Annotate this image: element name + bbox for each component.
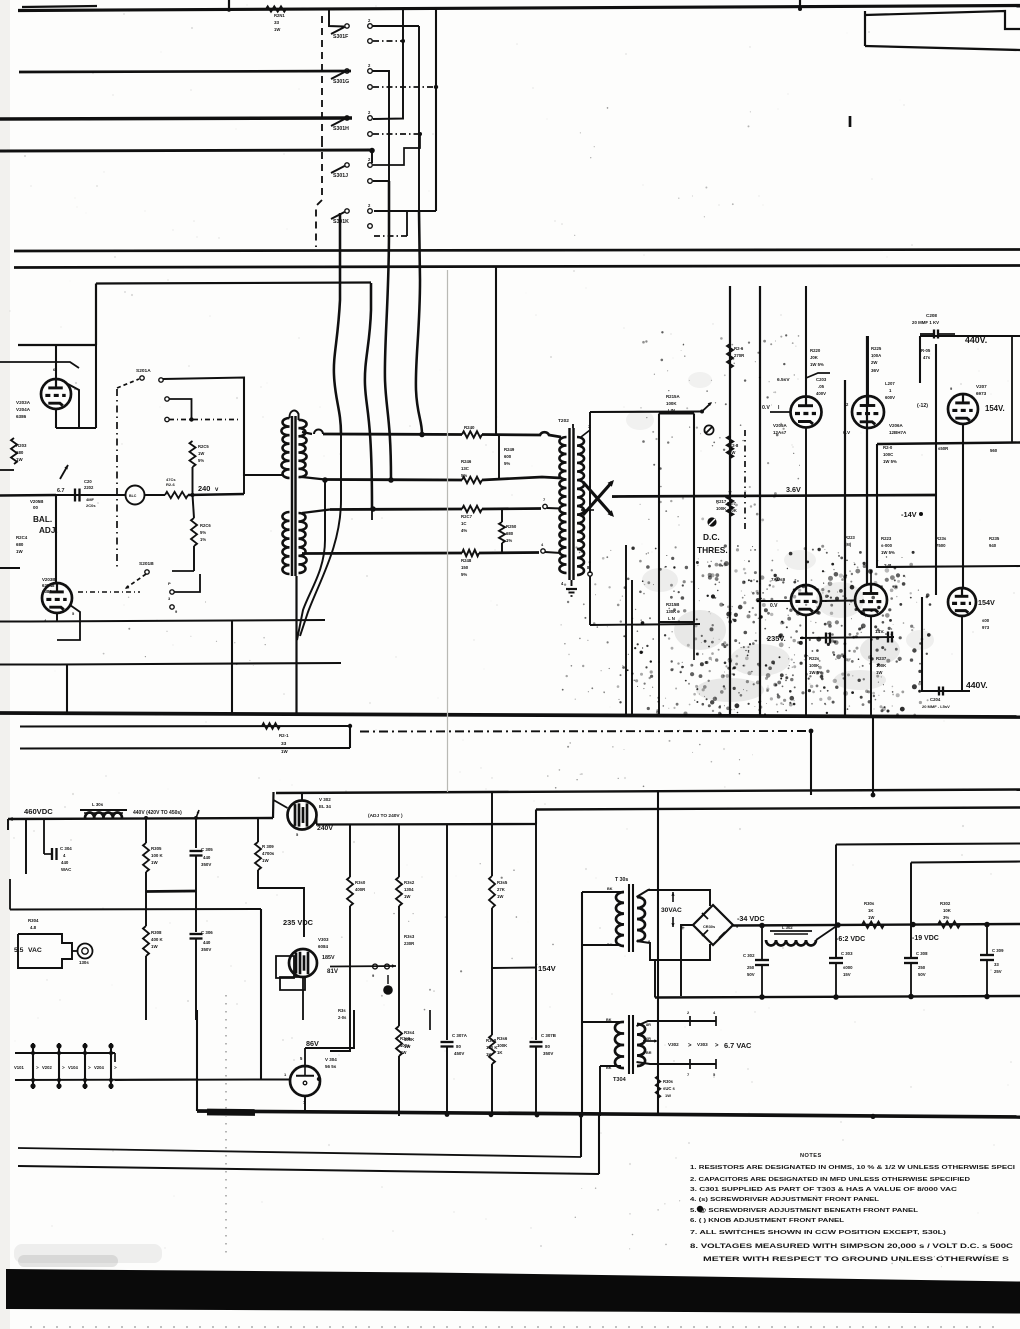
svg-text:7500: 7500 <box>936 543 946 548</box>
wire node y=495 through lamp <box>56 494 126 496</box>
svg-text:3.6V: 3.6V <box>786 485 801 494</box>
svg-text:S301F: S301F <box>333 34 348 40</box>
svg-text:NOTES: NOTES <box>800 1153 822 1159</box>
wire V304 right pin dot <box>317 1077 321 1081</box>
capacitor C208 top <box>933 330 935 339</box>
wire V205A grid stub <box>770 411 791 413</box>
wire T202 pin 8 drop <box>588 572 592 576</box>
wire node y=495 to T201 area <box>188 494 244 495</box>
transformer T304 core <box>628 1015 630 1074</box>
svg-text:C 307B: C 307B <box>541 1033 556 1038</box>
switch S301K contacts <box>368 209 373 214</box>
svg-text:S201B: S201B <box>139 561 154 567</box>
tube V205A <box>791 397 822 428</box>
svg-text:BK: BK <box>607 943 613 947</box>
svg-text:R30s: R30s <box>663 1079 674 1084</box>
wire bracket from bus to y=1151 line <box>580 1115 582 1157</box>
switch S201B contact <box>145 570 149 574</box>
transformer T303 secondary <box>637 897 645 941</box>
svg-text:1W: 1W <box>151 944 158 949</box>
svg-text:R250: R250 <box>506 524 517 529</box>
svg-text:BK: BK <box>606 1066 612 1070</box>
svg-text:C20: C20 <box>84 479 92 484</box>
svg-text:185V: 185V <box>322 955 335 961</box>
wire vertical x=436 from top bus to K row <box>435 7 437 211</box>
wire wavy drop 2 (from y=283 corner) <box>365 283 372 508</box>
svg-text:R240: R240 <box>464 425 475 430</box>
capacitor C202 <box>74 489 76 502</box>
capacitor C302 <box>755 959 769 961</box>
wire rail corner x=536 <box>535 810 537 825</box>
wire vertical x=536 <box>535 810 537 1041</box>
svg-text:R249: R249 <box>504 447 515 452</box>
wire T303 secondary bottom to bridge <box>637 941 711 960</box>
svg-text:1W 5%: 1W 5% <box>881 550 895 555</box>
inductor L304 <box>85 812 122 818</box>
svg-text:R2C4: R2C4 <box>16 535 28 540</box>
svg-text:5%: 5% <box>200 530 206 535</box>
wire rail y=818 left <box>8 818 273 819</box>
wire S301F arm feed from top bus <box>329 10 344 27</box>
svg-text:350V: 350V <box>201 947 211 952</box>
svg-text:>: > <box>36 1065 39 1070</box>
transformer T304 primary <box>615 1022 624 1068</box>
wire wavy drop 4 (from F-top vertical) <box>416 211 422 434</box>
wire dash-dot from cross to 3.6V bus <box>612 496 630 497</box>
inductor L302 <box>761 926 763 941</box>
wire V302 riser <box>272 792 275 818</box>
wire vertical x=67 to bus <box>66 665 68 715</box>
svg-text:1W: 1W <box>665 1093 671 1098</box>
svg-text:BR: BR <box>646 1051 652 1055</box>
wire R309 hang <box>257 818 259 842</box>
svg-text:4%: 4% <box>461 528 467 533</box>
scan artifact dotted vertical <box>225 995 227 1258</box>
resistor R309 <box>255 842 261 870</box>
svg-text:460VDC: 460VDC <box>24 807 53 816</box>
node line y=495 left <box>0 494 56 497</box>
svg-text:R215A: R215A <box>666 394 680 399</box>
svg-text:s000: s000 <box>843 965 853 970</box>
wire link y=891 <box>146 890 196 893</box>
svg-text:>: > <box>715 1043 719 1049</box>
svg-text:440: 440 <box>203 855 211 860</box>
svg-text:6. ( ) KNOB ADJUSTMENT FRONT P: 6. ( ) KNOB ADJUSTMENT FRONT PANEL <box>690 1218 845 1224</box>
svg-text:R203: R203 <box>16 443 27 448</box>
wire vertical x=96 y283-428 lower half <box>95 345 97 428</box>
wire left branch y=283 to wavy drop <box>96 283 371 284</box>
transformer T303 core <box>628 884 630 952</box>
svg-text:7. ALL SWITCHES SHOWN IN CCW P: 7. ALL SWITCHES SHOWN IN CCW POSITION EX… <box>690 1230 946 1236</box>
wire x=197 to bus <box>196 1080 198 1112</box>
svg-text:R2-1: R2-1 <box>279 733 289 738</box>
wire vertical from H-bottom to J-top <box>373 134 420 165</box>
wire horizontal y=428 <box>56 427 96 429</box>
wire box rail y=862 <box>911 862 1020 863</box>
wire drop x=325 to lower-left <box>297 480 325 640</box>
switch gang dash-dot vertical S201 <box>116 389 118 568</box>
svg-text:-34 VDC: -34 VDC <box>737 914 765 923</box>
scan speckle field <box>817 549 819 551</box>
wire y=909 branch <box>10 908 261 911</box>
wire top-right bracket lower <box>865 46 1020 50</box>
wire long vertical x=730 <box>729 286 731 715</box>
svg-text:100 K: 100 K <box>486 1045 498 1050</box>
svg-text:14V.: 14V. <box>875 629 884 635</box>
svg-text:V302: V302 <box>668 1042 679 1047</box>
wire V302 left pin <box>274 800 288 808</box>
resistor R302 <box>938 921 960 927</box>
scan blotch field <box>674 610 726 650</box>
wire heater line lower <box>15 1079 197 1082</box>
wire vertical x=192.5 to node <box>192 467 194 495</box>
svg-text:6386: 6386 <box>16 414 27 419</box>
svg-text:V205A: V205A <box>773 423 788 428</box>
wire U-loop right end <box>349 726 351 748</box>
svg-text:>: > <box>688 1043 692 1049</box>
svg-text:s-000: s-000 <box>881 543 893 548</box>
svg-text:1W: 1W <box>400 1050 407 1055</box>
svg-text:C 303: C 303 <box>841 951 853 956</box>
svg-text:5%: 5% <box>461 572 467 577</box>
wire C304 connections <box>43 818 45 854</box>
svg-text:R220: R220 <box>810 348 821 353</box>
svg-text:154V.: 154V. <box>985 404 1005 413</box>
wire dash-dot at V203B top <box>78 591 140 593</box>
svg-text:6084: 6084 <box>318 944 329 949</box>
note adjust dot symbol <box>697 1206 703 1212</box>
svg-text:6973: 6973 <box>976 391 987 396</box>
svg-text:C 302: C 302 <box>743 953 755 958</box>
wire long vertical x=845 <box>844 380 846 715</box>
switch S301F arm <box>345 24 349 28</box>
wire heater line upper <box>15 1052 115 1054</box>
wire R346 vertical x=430 <box>429 1010 431 1030</box>
svg-text:1W: 1W <box>198 451 204 456</box>
wire vertical x=194 to S201B row <box>193 546 195 571</box>
wire -34VDC line <box>733 924 1020 926</box>
wire T303 primary feed <box>582 892 621 945</box>
resistor R314 <box>396 1026 402 1056</box>
wire stub from left edge y=362 <box>0 362 79 368</box>
wire x=600 from T304 to bus <box>599 1066 601 1116</box>
wire rail y=792 long <box>276 790 1020 794</box>
wire S201B contact chain <box>170 590 174 594</box>
wire W1 secondary line y=435 <box>302 432 312 434</box>
resistor R310 <box>347 877 353 906</box>
tube V207 <box>948 394 978 424</box>
wire W1 to T202 <box>482 432 561 437</box>
svg-text:R246: R246 <box>461 459 472 464</box>
wire long vertical x=760 <box>759 286 761 715</box>
page grain <box>993 1144 995 1146</box>
svg-text:C 304: C 304 <box>60 846 72 851</box>
svg-text:940: 940 <box>989 543 997 548</box>
resistor R2N1 33 1W on top bus <box>266 6 286 11</box>
svg-text:250: 250 <box>747 965 755 970</box>
wire rail y=808 right half <box>536 808 1020 810</box>
svg-text:V204A: V204A <box>16 407 31 412</box>
wire left edge stubs bottom <box>0 620 30 622</box>
svg-text:J0K: J0K <box>810 355 819 360</box>
svg-text:R3s0: R3s0 <box>355 880 366 885</box>
wire R309 to V303 <box>258 870 304 937</box>
wire lower cathode row y=638 <box>800 637 894 638</box>
wire rail y=824 middle <box>316 823 536 826</box>
wire vertical x=582 <box>581 892 583 1116</box>
svg-text:R225: R225 <box>871 346 882 351</box>
svg-text:33: 33 <box>281 741 287 747</box>
svg-text:R3s4: R3s4 <box>404 1030 415 1035</box>
wire vertical x=492 <box>491 792 493 876</box>
svg-text:T202: T202 <box>558 418 569 424</box>
svg-text:L207: L207 <box>885 381 895 386</box>
wire doubled segment top-left <box>22 6 97 7</box>
svg-text:1K: 1K <box>497 1050 503 1055</box>
svg-text:.05: .05 <box>818 384 825 389</box>
svg-text:L 302: L 302 <box>782 925 793 930</box>
scan artifact faint vertical <box>447 270 449 792</box>
wire bottom bus y=1115 <box>197 1111 1020 1117</box>
lamp/indicator circle <box>126 486 145 505</box>
svg-text:P: P <box>168 581 171 586</box>
wire T304 secondary bottom rail <box>637 1062 717 1064</box>
scan dotted bottom edge <box>30 1326 1000 1328</box>
svg-text:13C: 13C <box>461 466 469 471</box>
svg-text:6386: 6386 <box>42 589 52 594</box>
switch gang dashed line S301F-K <box>321 16 323 140</box>
svg-text:154V: 154V <box>978 598 995 607</box>
svg-text:L N: L N <box>668 616 675 621</box>
svg-text:V 304: V 304 <box>325 1057 337 1062</box>
wire x=806 lower tube leads <box>805 428 807 584</box>
svg-text:3. C301 SUPPLIED AS PART OF T3: 3. C301 SUPPLIED AS PART OF T303 & HAS A… <box>690 1187 957 1193</box>
capacitor C307B <box>530 1041 543 1043</box>
wire V302 plate top <box>301 793 303 801</box>
svg-text:R3s5: R3s5 <box>497 880 508 885</box>
wire vertical x=56 to lower tube <box>55 495 57 583</box>
wire S301F bottom contact dash-dot <box>373 40 403 42</box>
svg-text:R2C6: R2C6 <box>200 523 211 528</box>
wire wavy drop 3 <box>385 181 391 479</box>
switch S301F contacts <box>368 24 373 29</box>
wire bridge + left drop <box>681 925 693 996</box>
wire S301K bottom contact dash-dot <box>374 235 407 237</box>
wire x=626 vertical <box>625 545 627 715</box>
svg-text:235 VDC: 235 VDC <box>283 918 314 927</box>
svg-text:680: 680 <box>506 531 514 536</box>
resistor R248 <box>462 550 479 556</box>
svg-text:>: > <box>88 1065 91 1070</box>
wire V203A cathode lead <box>55 409 57 428</box>
wire W3 to T202 with pin <box>482 507 541 510</box>
svg-text:-14V: -14V <box>901 510 917 519</box>
tube V203B <box>42 583 72 613</box>
svg-text:R3s2: R3s2 <box>404 880 415 885</box>
svg-text:81V: 81V <box>327 968 339 975</box>
svg-text:5%: 5% <box>461 473 467 478</box>
svg-text:154V: 154V <box>538 964 557 973</box>
svg-text:1W 5%: 1W 5% <box>810 362 824 367</box>
wire box rail y=844 <box>836 844 1020 845</box>
svg-text:V303: V303 <box>697 1042 708 1047</box>
svg-text:440V (420V TO 450s): 440V (420V TO 450s) <box>133 810 182 816</box>
svg-text:R3s6: R3s6 <box>497 1036 508 1041</box>
transformer T201 secondary upper <box>299 420 307 477</box>
svg-text:R22s: R22s <box>809 656 820 661</box>
wire vertical x=96 from y=283 to y=345 <box>95 284 97 346</box>
tube V208 (lower left) <box>791 585 821 615</box>
wire return bus left corner <box>654 960 656 998</box>
wire V203B grid lead <box>57 605 80 640</box>
svg-text:2W: 2W <box>871 360 878 365</box>
wire long vertical x=1012 <box>1011 336 1013 443</box>
wire T202 secondary mid tap region <box>581 509 594 511</box>
svg-text:C 308: C 308 <box>916 951 928 956</box>
capacitor C204 <box>938 687 940 696</box>
resistor R305 <box>143 843 149 872</box>
wire x=694 pot box drop <box>693 622 695 660</box>
svg-text:1. RESISTORS ARE DESIGNATED IN: 1. RESISTORS ARE DESIGNATED IN OHMS, 10 … <box>690 1165 1016 1171</box>
svg-text:(-12): (-12) <box>917 403 928 409</box>
svg-text:130s: 130s <box>79 960 89 965</box>
wire vertical from F-top down <box>418 26 420 211</box>
svg-text:47s: 47s <box>923 355 931 360</box>
wire T304 mid tap arrow <box>643 1040 656 1042</box>
svg-text:1W 5%: 1W 5% <box>883 459 897 464</box>
svg-text:C 309: C 309 <box>992 948 1004 953</box>
switch S301K arm <box>345 209 349 213</box>
svg-text:R3s3: R3s3 <box>404 934 415 939</box>
svg-text:R-05: R-05 <box>921 348 931 353</box>
wire left edge stub y=568 <box>0 567 20 569</box>
svg-text:V101: V101 <box>14 1065 24 1070</box>
svg-text:CR30s: CR30s <box>703 924 715 929</box>
capacitor on y=638 left <box>825 633 827 644</box>
wire horizontal y=621 <box>30 620 325 622</box>
svg-text:1304: 1304 <box>404 887 414 892</box>
wire vertical x=496 from second long line to W1 <box>495 266 497 434</box>
svg-text:1W: 1W <box>404 894 411 899</box>
svg-text:400 K: 400 K <box>151 937 164 942</box>
wire left edge stub y=470 <box>0 469 14 471</box>
svg-text:1W: 1W <box>151 860 158 865</box>
svg-text:1C: 1C <box>461 521 467 526</box>
wire V206A plate <box>867 336 869 396</box>
wire heater chain to V304 <box>196 1010 198 1080</box>
svg-text:R2C7: R2C7 <box>461 514 473 519</box>
svg-text:50V: 50V <box>918 972 926 977</box>
svg-text:440V.: 440V. <box>966 680 988 690</box>
svg-text:4. (s) SCREWDRIVER ADJUSTMENT: 4. (s) SCREWDRIVER ADJUSTMENT FRONT PANE… <box>690 1197 880 1203</box>
svg-text:V202: V202 <box>42 1065 52 1070</box>
wire S301F top contact to vertical <box>373 25 420 27</box>
wire x=146 lower <box>145 891 147 926</box>
wire feed line to S301H (thick) <box>0 118 352 119</box>
capacitor C304 <box>51 848 53 860</box>
capacitor C308 <box>904 957 918 959</box>
svg-text:R2-6: R2-6 <box>734 346 744 351</box>
wire x=350 bottom to V304 area <box>330 966 350 1051</box>
svg-text:C 307A: C 307A <box>452 1033 468 1038</box>
capacitor C303 <box>829 957 843 959</box>
svg-text:1W: 1W <box>16 457 23 462</box>
resistor R217b on x=730 <box>727 496 733 516</box>
svg-text:440: 440 <box>61 860 69 865</box>
svg-text:450V: 450V <box>454 1051 464 1056</box>
svg-text:100C: 100C <box>883 452 893 457</box>
resistor R312 <box>396 877 402 906</box>
wire from S201A top contact to T201 <box>163 378 284 476</box>
svg-text:C204: C204 <box>930 697 941 702</box>
wire V203B bottom lead <box>56 613 58 621</box>
switch S201A arm dashed <box>117 379 139 388</box>
tube V206A <box>852 396 884 428</box>
svg-text:-6:2 VDC: -6:2 VDC <box>836 936 865 943</box>
wire V303 bottom <box>302 977 304 1020</box>
screwdriver adjust symbol upper <box>704 425 713 434</box>
svg-text:V207: V207 <box>976 384 987 389</box>
svg-text:47Cs: 47Cs <box>166 477 176 482</box>
svg-text:100K: 100K <box>666 401 677 406</box>
wire T304 primary feed stubs <box>582 1022 621 1066</box>
tube V302 <box>288 801 317 830</box>
wire x=871 lower tube leads <box>870 570 872 584</box>
resistor R203 (left edge) <box>11 438 17 464</box>
svg-text:V303: V303 <box>318 937 329 942</box>
wire top-right bracket upper <box>865 11 1020 46</box>
wire V203A grid lead right <box>66 383 79 428</box>
svg-text:R304: R304 <box>28 918 39 923</box>
svg-text:230R: 230R <box>404 941 415 946</box>
wire x=632 from T202 area to bus <box>631 580 633 715</box>
resistor R315 <box>489 876 495 908</box>
svg-text:R23s: R23s <box>936 536 947 541</box>
svg-text:BK: BK <box>607 887 613 891</box>
wire vertical R249 link W1-W2 <box>498 435 500 479</box>
svg-text:36V: 36V <box>871 368 880 373</box>
wire bracket from bus to y=1170 line <box>598 1115 600 1174</box>
svg-text:270R: 270R <box>734 353 745 358</box>
box DC THRES pot outline <box>659 414 694 623</box>
svg-text:V104: V104 <box>68 1065 78 1070</box>
svg-text:V204: V204 <box>94 1065 104 1070</box>
wire T202 secondary top to pin 3 <box>581 430 590 437</box>
wire U-loop lower <box>20 747 350 750</box>
resistor R316 <box>489 1035 495 1064</box>
crossed output wires with arrows <box>583 482 612 515</box>
wire V203A plate lead <box>55 345 57 379</box>
wire T201 bottom to ground bus <box>295 576 297 715</box>
svg-text:250: 250 <box>918 965 926 970</box>
svg-text:WAC: WAC <box>61 867 72 872</box>
svg-text:440: 440 <box>203 940 211 945</box>
wire vertical x=877 <box>877 444 1020 567</box>
svg-text:THRES.: THRES. <box>697 545 728 555</box>
svg-text:0.V: 0.V <box>843 430 851 436</box>
wire vertical x=590 <box>589 412 591 573</box>
svg-text:4MF: 4MF <box>86 497 95 502</box>
wire vertical x=399 chain <box>398 824 400 877</box>
connector 5.5VAC <box>18 934 72 968</box>
svg-text:D.C.: D.C. <box>703 532 720 542</box>
svg-text:1%: 1% <box>200 537 206 542</box>
wire x=196 lower <box>195 891 197 932</box>
bridge diode ticks <box>702 913 708 919</box>
svg-text:973: 973 <box>982 625 990 630</box>
svg-text:C 305: C 305 <box>201 847 213 852</box>
wire x=261 drop <box>260 909 262 1079</box>
